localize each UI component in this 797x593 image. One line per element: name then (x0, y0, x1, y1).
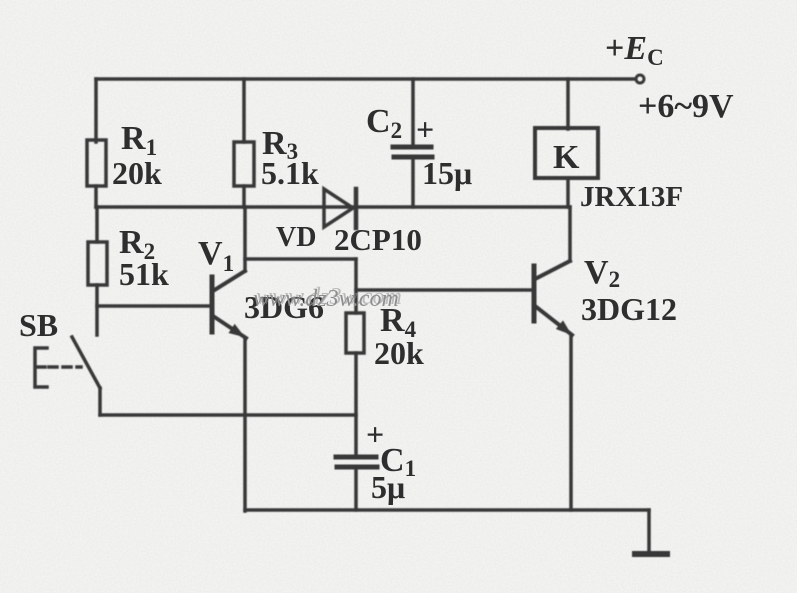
svg-text:K: K (553, 139, 580, 176)
wire collector node to R4 column (245, 257, 356, 261)
wire to ground (647, 510, 651, 551)
wire K bottom / V2 collector (566, 178, 570, 207)
wire left vertical to R1 (94, 79, 98, 142)
wire bottom rail (245, 508, 649, 512)
resistor R3 (234, 142, 254, 186)
wire K top (566, 79, 570, 129)
svg-text:+: + (416, 111, 434, 147)
resistor R1 (87, 140, 106, 186)
svg-text:www.dz3w.com: www.dz3w.com (256, 284, 402, 310)
svg-text:SB: SB (19, 307, 58, 343)
svg-text:5μ: 5μ (371, 469, 405, 505)
svg-text:JRX13F: JRX13F (580, 181, 683, 213)
wire R4 to C1 (354, 353, 358, 455)
resistor R2 (88, 242, 107, 285)
svg-text:3DG12: 3DG12 (581, 291, 677, 327)
switch SB (35, 337, 100, 415)
diode VD (324, 189, 356, 228)
transistor V1 (212, 271, 246, 338)
ground (635, 551, 667, 557)
svg-text:5.1k: 5.1k (261, 155, 319, 191)
wire base V1 (97, 304, 210, 308)
wire bus to R2 (95, 207, 99, 242)
relay K box (535, 128, 598, 178)
svg-text:51k: 51k (119, 256, 169, 292)
wire down to R4 (354, 259, 358, 313)
capacitor C2 (393, 79, 432, 207)
svg-text:20k: 20k (374, 335, 424, 371)
node terminal +Ec (636, 75, 644, 83)
wire V2 emitter down (569, 335, 573, 510)
capacitor C1 (336, 457, 377, 510)
transistor V2 (534, 261, 572, 335)
svg-text:+6~9V: +6~9V (638, 88, 734, 125)
wire to V2 base (356, 288, 532, 292)
wire V1 emitter down (243, 338, 247, 511)
svg-text:20k: 20k (112, 155, 162, 191)
wire R3 top (242, 79, 246, 142)
wire R2 to switch contact (95, 285, 99, 335)
wire bottom-left horizontal (100, 413, 356, 417)
wire R3 to bus (242, 186, 246, 207)
svg-text:VD: VD (276, 222, 316, 253)
wire top rail +Ec (96, 77, 634, 81)
wire mid horizontal bus (96, 205, 570, 209)
wire V1 collector up (243, 207, 247, 271)
resistor R4 (346, 313, 364, 353)
svg-text:2CP10: 2CP10 (334, 222, 422, 257)
svg-text:15μ: 15μ (422, 155, 472, 191)
wire R1 to bus (94, 186, 98, 207)
svg-text:+: + (366, 416, 384, 452)
